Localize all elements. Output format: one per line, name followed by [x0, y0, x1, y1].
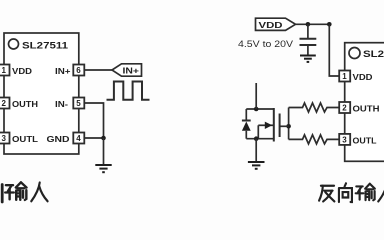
junction at capacitor tap	[306, 22, 311, 27]
svg-text:IN+: IN+	[55, 66, 71, 76]
svg-text:OUTH: OUTH	[353, 104, 380, 114]
svg-text:IN-: IN-	[55, 99, 68, 109]
wire VDD flag to chip branch	[296, 23, 330, 25]
pin 1 box U2	[339, 71, 350, 82]
transistor Q1 channel bar	[273, 108, 275, 142]
wire down to ground symbol	[103, 138, 105, 165]
ground symbol (under C1)	[300, 56, 316, 62]
wire drain stub up	[255, 83, 257, 109]
caption left: 入	[31, 183, 47, 202]
resistor R2 (to OUTL)	[289, 135, 340, 144]
pin 1 box U1	[0, 65, 10, 76]
transistor Q1 gate bar	[279, 114, 281, 138]
wire gate lead	[280, 125, 289, 127]
resistor R1 (to OUTH)	[289, 103, 340, 112]
junction pin4/pin5 gnd node	[101, 136, 106, 141]
wire source to ground	[255, 139, 257, 162]
svg-text:SL27511: SL27511	[363, 49, 384, 59]
wire pin5 down to gnd net	[84, 103, 103, 138]
svg-text:3: 3	[2, 134, 7, 143]
square-wave input symbol	[107, 82, 150, 100]
svg-text:VDD: VDD	[353, 72, 373, 82]
wire C1 to ground	[307, 46, 309, 56]
caption right: 输	[356, 184, 375, 200]
wire Q1 drain rail	[246, 108, 273, 110]
capacitor C1	[300, 39, 317, 45]
wire joining R1/R2 to gate	[288, 108, 290, 140]
svg-text:SL27511: SL27511	[22, 41, 68, 51]
svg-text:2: 2	[2, 99, 7, 108]
svg-text:2: 2	[342, 104, 347, 113]
wire VDD branch down-right into U2 pin1	[329, 24, 339, 76]
pin-1 indicator circle U2	[349, 48, 360, 59]
IC U1 body SL27511	[4, 33, 79, 154]
junction at gate node	[286, 124, 291, 129]
caption right: 入 (cut at edge)	[378, 184, 384, 201]
svg-text:OUTL: OUTL	[12, 134, 38, 144]
svg-text:6: 6	[76, 66, 81, 75]
IC U2 body SL27511 (right, partially cut)	[345, 43, 384, 162]
wire to capacitor C1	[307, 24, 309, 38]
wire pin4 to gnd net	[84, 137, 103, 139]
junction at chip branch	[327, 22, 332, 27]
wire Q1 source lead with arrow	[258, 122, 274, 139]
svg-text:1: 1	[342, 72, 347, 81]
ground symbol (under Q1)	[248, 162, 265, 169]
caption left: 输	[5, 182, 26, 200]
svg-text:4.5V to 20V: 4.5V to 20V	[238, 39, 294, 50]
svg-text:GND: GND	[47, 134, 70, 144]
svg-text:VDD: VDD	[12, 66, 32, 76]
svg-text:VDD: VDD	[259, 20, 283, 30]
wire pin6 to IN+ flag	[84, 69, 112, 71]
pin 6 box U1	[73, 65, 84, 76]
wire Q1 source rail	[246, 138, 273, 140]
junction source node	[254, 136, 259, 141]
caption right: 反	[319, 186, 334, 202]
ground symbol (left circuit)	[95, 165, 111, 172]
net flag VDD	[256, 18, 296, 30]
svg-text:IN+: IN+	[123, 66, 140, 76]
svg-text:1: 1	[2, 66, 7, 75]
svg-text:3: 3	[342, 135, 347, 144]
junction drain node	[254, 107, 259, 112]
svg-text:OUTH: OUTH	[12, 99, 38, 109]
net flag IN+	[112, 64, 142, 76]
svg-text:5: 5	[76, 99, 81, 108]
pin 2 box U1	[0, 98, 10, 109]
svg-text:OUTL: OUTL	[353, 135, 377, 145]
pin 3 box U2	[339, 134, 350, 145]
caption right: 向	[339, 183, 352, 202]
caption left: partial char (cut)	[1, 185, 4, 203]
pin 3 box U1	[0, 133, 10, 144]
pin-1 indicator circle U1	[9, 39, 19, 49]
pin 5 box U1	[73, 98, 84, 109]
pin 4 box U1	[73, 133, 84, 144]
pin 2 box U2	[339, 102, 350, 113]
diode D1 (body diode)	[242, 109, 251, 139]
svg-text:4: 4	[76, 134, 81, 143]
